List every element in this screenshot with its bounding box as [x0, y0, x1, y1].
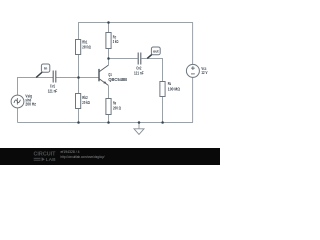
wire Rb1 bottom lead	[78, 55, 80, 78]
svg-text:200 kΩ: 200 kΩ	[82, 44, 91, 49]
wire out node Co2 to Ru	[142, 59, 163, 82]
junction bottom rail / Ru	[161, 121, 164, 124]
svg-text:200 Ω: 200 Ω	[113, 105, 122, 110]
voltage source Vcc	[186, 64, 207, 77]
wire collector node to Co2	[109, 58, 138, 60]
wire Rb2 leads	[78, 78, 80, 123]
junction bottom rail / ground	[138, 121, 141, 124]
footer logo CircuitLab	[34, 151, 57, 163]
wire emitter vertical to Re	[108, 85, 110, 98]
wire Ru bottom lead	[162, 97, 164, 123]
voltage source Vsig	[11, 93, 36, 108]
junction top rail / Rc	[107, 21, 110, 24]
svg-text:http://circuitlab.com/csm/dsg4: http://circuitlab.com/csm/dsg4cy/	[61, 155, 105, 159]
junction collector node	[107, 57, 110, 60]
wire collector vertical	[108, 59, 110, 66]
svg-text:CIRCUIT: CIRCUIT	[34, 151, 56, 157]
resistor Rb1	[76, 40, 92, 55]
capacitor Cv1	[48, 71, 58, 94]
svg-text:LAB: LAB	[46, 157, 57, 163]
footer text	[61, 150, 105, 159]
capacitor Co2	[134, 53, 144, 76]
ground	[134, 129, 144, 135]
transistor Q1	[99, 65, 127, 85]
wire ground stub	[138, 123, 140, 129]
svg-text:QBC548B: QBC548B	[108, 77, 127, 82]
node flag in	[36, 64, 50, 77]
wire input node from source to Cv1	[18, 78, 54, 96]
wire Vsig bottom to rail	[17, 108, 19, 123]
junction base node / Rb1 Rb2	[77, 76, 80, 79]
resistor Rc	[106, 33, 119, 49]
junction bottom rail / Re	[107, 121, 110, 124]
svg-text:Ru: Ru	[168, 81, 172, 86]
wire base node Cv1 to Q1 base	[56, 77, 99, 79]
wire top rail Vcc	[79, 23, 194, 40]
wire Re bottom lead	[108, 115, 110, 123]
wire bottom rail	[18, 122, 194, 124]
svg-text:3 kΩ: 3 kΩ	[113, 39, 119, 44]
wire right rail Vcc leads	[192, 23, 194, 123]
footer bar	[0, 148, 220, 165]
resistor Re	[106, 99, 122, 115]
resistor Rb2	[76, 94, 91, 109]
junction bottom rail / Rb2	[77, 121, 80, 124]
svg-text:100 MΩ: 100 MΩ	[168, 86, 181, 91]
wire Rc leads	[108, 23, 110, 59]
svg-text:200 Hz: 200 Hz	[25, 101, 36, 106]
node flag out	[147, 47, 160, 58]
svg-text:ef194328 / 4: ef194328 / 4	[61, 150, 80, 154]
svg-text:121 nF: 121 nF	[134, 71, 144, 76]
svg-text:20 kΩ: 20 kΩ	[82, 100, 90, 105]
svg-text:out: out	[153, 50, 159, 54]
resistor Ru	[160, 81, 181, 96]
svg-text:12 V: 12 V	[201, 70, 207, 75]
svg-text:121 nF: 121 nF	[48, 89, 58, 94]
